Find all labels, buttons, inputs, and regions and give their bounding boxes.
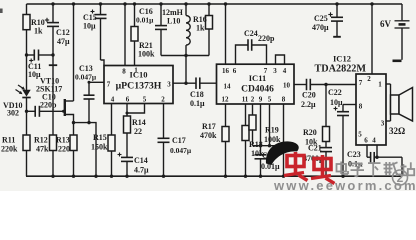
- svg-text:C23: C23: [347, 150, 361, 159]
- svg-text:5: 5: [143, 96, 147, 104]
- svg-text:1k: 1k: [34, 27, 43, 36]
- svg-text:14: 14: [224, 83, 232, 91]
- svg-text:3: 3: [273, 67, 277, 75]
- svg-text:6: 6: [233, 67, 237, 75]
- svg-text:9: 9: [259, 96, 263, 104]
- svg-text:IC10: IC10: [130, 70, 148, 80]
- svg-text:10μ: 10μ: [330, 98, 343, 107]
- svg-text:10μ: 10μ: [83, 22, 96, 31]
- svg-text:4.7μ: 4.7μ: [134, 166, 149, 175]
- svg-text:3: 3: [381, 120, 385, 128]
- svg-text:R11: R11: [2, 136, 15, 145]
- svg-text:6: 6: [364, 137, 368, 145]
- svg-text:150k: 150k: [91, 143, 108, 152]
- svg-text:C25: C25: [314, 14, 328, 23]
- svg-text:0.047μ: 0.047μ: [75, 73, 97, 82]
- svg-text:3: 3: [167, 81, 171, 89]
- svg-text:8: 8: [282, 96, 286, 104]
- svg-text:220: 220: [58, 145, 70, 154]
- svg-text:IC12: IC12: [333, 54, 351, 64]
- svg-text:8: 8: [359, 103, 363, 111]
- svg-text:R17: R17: [202, 122, 216, 131]
- svg-text:6V: 6V: [380, 19, 392, 29]
- svg-text:R15: R15: [93, 133, 107, 142]
- svg-text:C22: C22: [328, 88, 342, 97]
- svg-text:8: 8: [122, 68, 126, 76]
- svg-text:1: 1: [378, 81, 382, 89]
- svg-text:C14: C14: [134, 156, 148, 165]
- svg-text:C12: C12: [56, 28, 70, 37]
- svg-text:7: 7: [359, 79, 363, 87]
- svg-text:7: 7: [107, 81, 111, 89]
- svg-text:2: 2: [161, 96, 165, 104]
- svg-text:11: 11: [242, 96, 249, 104]
- svg-text:C21: C21: [308, 144, 322, 153]
- svg-text:www.eeworm.com: www.eeworm.com: [273, 178, 416, 191]
- svg-text:0.047μ: 0.047μ: [170, 146, 192, 155]
- svg-text:7: 7: [264, 67, 268, 75]
- svg-text:C20: C20: [302, 91, 316, 100]
- svg-text:TDA2822M: TDA2822M: [315, 64, 367, 75]
- svg-text:6: 6: [126, 96, 130, 104]
- svg-text:100k: 100k: [138, 50, 155, 59]
- svg-text:2.2μ: 2.2μ: [301, 100, 316, 109]
- svg-text:22: 22: [134, 127, 142, 136]
- svg-text:47μ: 47μ: [57, 37, 70, 46]
- svg-text:32Ω: 32Ω: [389, 126, 405, 136]
- svg-text:4: 4: [372, 137, 376, 145]
- svg-text:R19: R19: [265, 126, 279, 135]
- svg-text:L10: L10: [167, 17, 180, 26]
- svg-text:C18: C18: [190, 90, 204, 99]
- svg-text:2: 2: [251, 96, 255, 104]
- svg-text:47k: 47k: [36, 145, 49, 154]
- svg-text:C24: C24: [244, 29, 258, 38]
- svg-text:220k: 220k: [1, 145, 18, 154]
- svg-text:1k: 1k: [196, 24, 205, 33]
- svg-text:R14: R14: [132, 118, 146, 127]
- svg-text:220p: 220p: [40, 101, 57, 110]
- svg-text:0.1μ: 0.1μ: [190, 99, 205, 108]
- svg-text:2: 2: [367, 75, 371, 83]
- svg-text:220p: 220p: [258, 34, 275, 43]
- svg-text:CD4046: CD4046: [241, 85, 274, 95]
- svg-text:5: 5: [358, 131, 362, 139]
- svg-text:16: 16: [222, 67, 230, 75]
- svg-text:302: 302: [7, 109, 19, 118]
- svg-text:10: 10: [283, 82, 291, 90]
- svg-text:R13: R13: [56, 136, 70, 145]
- svg-text:C17: C17: [172, 136, 186, 145]
- svg-text:470μ: 470μ: [312, 23, 329, 32]
- svg-text:470k: 470k: [200, 131, 217, 140]
- svg-text:4: 4: [283, 67, 287, 75]
- svg-text:5: 5: [268, 96, 272, 104]
- svg-text:4: 4: [111, 96, 115, 104]
- svg-text:1: 1: [134, 67, 138, 75]
- svg-text:0.01μ: 0.01μ: [136, 16, 154, 25]
- svg-text:12: 12: [222, 96, 230, 104]
- svg-text:R12: R12: [34, 136, 48, 145]
- svg-text:R20: R20: [303, 128, 317, 137]
- svg-text:100k: 100k: [264, 135, 281, 144]
- svg-text:μPC1373H: μPC1373H: [116, 81, 162, 92]
